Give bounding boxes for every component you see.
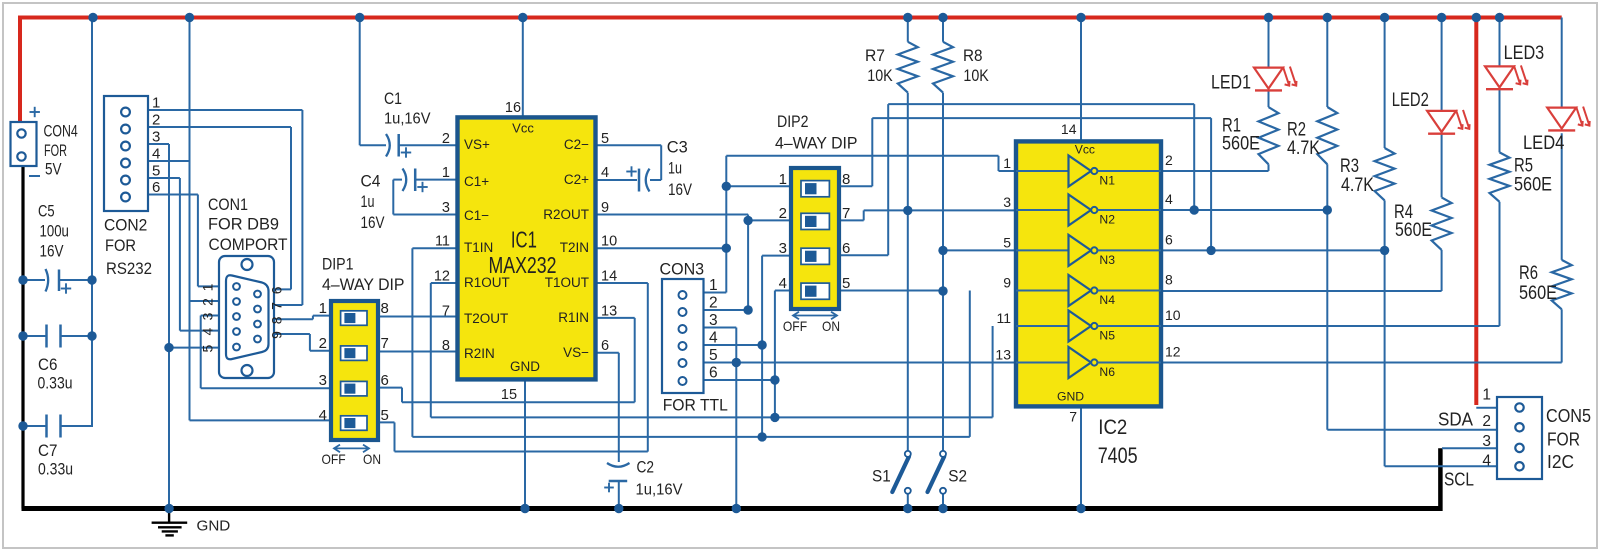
svg-text:COMPORT: COMPORT (209, 235, 288, 254)
svg-text:6: 6 (1165, 231, 1173, 247)
svg-text:5V: 5V (45, 160, 62, 179)
svg-text:GND: GND (1057, 390, 1084, 404)
svg-text:N1: N1 (1099, 173, 1115, 187)
svg-text:C2−: C2− (564, 137, 589, 152)
svg-text:3: 3 (779, 240, 787, 257)
svg-text:4: 4 (152, 146, 160, 163)
svg-text:R7: R7 (865, 46, 885, 65)
svg-text:GND: GND (197, 518, 231, 535)
svg-text:8: 8 (842, 171, 850, 188)
svg-text:1u: 1u (668, 159, 682, 178)
svg-text:FOR: FOR (105, 236, 136, 255)
svg-text:C2: C2 (637, 458, 655, 477)
svg-text:CON4: CON4 (44, 122, 78, 141)
svg-text:16: 16 (505, 100, 521, 116)
svg-text:0.33u: 0.33u (38, 374, 73, 393)
svg-text:2: 2 (200, 298, 216, 306)
svg-text:4.7K: 4.7K (1341, 175, 1374, 196)
svg-text:5: 5 (152, 163, 160, 180)
svg-text:6: 6 (152, 179, 160, 196)
svg-text:14: 14 (1061, 121, 1077, 137)
svg-text:13: 13 (995, 347, 1011, 363)
svg-text:DIP2: DIP2 (777, 112, 809, 131)
svg-text:1: 1 (1482, 387, 1491, 404)
svg-text:9: 9 (1003, 275, 1011, 291)
svg-text:7: 7 (442, 303, 450, 319)
svg-text:3: 3 (152, 129, 160, 146)
svg-text:5: 5 (381, 407, 389, 424)
svg-text:9: 9 (601, 200, 609, 216)
svg-text:GND: GND (510, 359, 540, 374)
svg-text:IC2: IC2 (1098, 415, 1127, 439)
svg-text:CON2: CON2 (104, 216, 147, 235)
svg-text:2: 2 (152, 112, 160, 129)
svg-text:1u,16V: 1u,16V (636, 482, 683, 499)
svg-text:7: 7 (269, 302, 285, 310)
svg-text:LED2: LED2 (1392, 90, 1429, 111)
svg-text:SCL: SCL (1444, 470, 1474, 490)
svg-text:N4: N4 (1099, 293, 1115, 307)
svg-text:1: 1 (779, 171, 787, 188)
svg-text:R5: R5 (1514, 155, 1533, 176)
svg-text:5: 5 (709, 347, 718, 364)
svg-text:N2: N2 (1099, 212, 1115, 226)
svg-text:560E: 560E (1519, 283, 1557, 304)
svg-text:560E: 560E (1395, 220, 1432, 241)
svg-text:FOR TTL: FOR TTL (663, 395, 728, 414)
svg-text:1: 1 (1003, 155, 1011, 171)
svg-text:C1: C1 (384, 89, 402, 108)
svg-text:C6: C6 (38, 355, 57, 374)
svg-text:R6: R6 (1519, 263, 1538, 284)
svg-text:4–WAY DIP: 4–WAY DIP (322, 275, 405, 294)
svg-text:SDA: SDA (1438, 410, 1473, 430)
svg-text:2: 2 (319, 335, 327, 352)
svg-text:FOR DB9: FOR DB9 (208, 215, 279, 234)
svg-text:N3: N3 (1099, 253, 1115, 267)
svg-text:12: 12 (1165, 344, 1181, 360)
svg-text:R1IN: R1IN (558, 310, 589, 325)
svg-text:2: 2 (709, 295, 718, 312)
svg-text:4: 4 (1482, 453, 1491, 470)
svg-text:6: 6 (842, 240, 850, 257)
svg-text:LED4: LED4 (1523, 133, 1565, 154)
svg-text:C5: C5 (38, 202, 55, 221)
svg-text:1: 1 (319, 300, 327, 317)
svg-text:1: 1 (200, 283, 216, 291)
svg-text:7: 7 (381, 335, 389, 352)
svg-text:VS−: VS− (563, 345, 589, 360)
svg-text:8: 8 (442, 338, 450, 354)
svg-text:N6: N6 (1099, 365, 1115, 379)
svg-text:I2C: I2C (1547, 452, 1574, 472)
svg-text:8: 8 (269, 316, 285, 324)
svg-text:5: 5 (200, 344, 216, 352)
svg-text:7: 7 (1069, 409, 1077, 425)
svg-text:OFF: OFF (322, 451, 346, 467)
svg-text:4: 4 (200, 327, 216, 335)
svg-text:3: 3 (1003, 194, 1011, 210)
svg-text:10: 10 (601, 234, 617, 250)
svg-text:3: 3 (1482, 433, 1491, 450)
svg-text:FOR: FOR (44, 141, 67, 160)
svg-text:11: 11 (435, 234, 450, 250)
svg-text:2: 2 (1482, 413, 1491, 430)
svg-text:FOR: FOR (1547, 430, 1580, 450)
svg-text:S1: S1 (872, 466, 891, 485)
svg-text:3: 3 (442, 200, 450, 216)
svg-text:CON3: CON3 (660, 259, 705, 278)
svg-text:11: 11 (996, 310, 1011, 326)
svg-text:T2OUT: T2OUT (464, 311, 508, 326)
svg-text:2: 2 (779, 205, 787, 222)
svg-text:10: 10 (1165, 307, 1181, 323)
svg-text:C1+: C1+ (464, 174, 489, 189)
svg-text:8: 8 (1165, 272, 1173, 288)
svg-text:3: 3 (709, 312, 718, 329)
svg-text:1: 1 (442, 165, 450, 181)
svg-text:1: 1 (709, 277, 718, 294)
svg-text:4: 4 (709, 330, 718, 347)
svg-text:13: 13 (601, 303, 617, 319)
svg-text:7: 7 (842, 205, 850, 222)
svg-text:C4: C4 (361, 172, 381, 191)
svg-text:5: 5 (842, 275, 850, 292)
svg-text:5: 5 (601, 131, 609, 147)
svg-text:1u: 1u (361, 192, 375, 211)
svg-text:N5: N5 (1099, 328, 1115, 342)
svg-text:ON: ON (822, 318, 840, 334)
svg-text:3: 3 (200, 312, 216, 320)
svg-text:CON5: CON5 (1546, 406, 1591, 426)
svg-text:CON1: CON1 (208, 195, 248, 214)
svg-text:4–WAY DIP: 4–WAY DIP (775, 134, 858, 153)
svg-text:LED1: LED1 (1211, 73, 1251, 94)
svg-text:R8: R8 (963, 46, 983, 65)
svg-text:7405: 7405 (1098, 443, 1138, 468)
svg-text:9: 9 (269, 331, 285, 339)
svg-text:1u,16V: 1u,16V (384, 111, 431, 128)
svg-text:T2IN: T2IN (560, 240, 589, 255)
svg-text:12: 12 (434, 269, 450, 285)
svg-text:6: 6 (601, 338, 609, 354)
svg-text:16V: 16V (40, 242, 65, 261)
svg-text:4: 4 (601, 165, 609, 181)
svg-text:560E: 560E (1514, 174, 1552, 195)
svg-text:RS232: RS232 (106, 259, 152, 278)
svg-text:15: 15 (501, 387, 517, 403)
svg-text:1: 1 (152, 95, 160, 112)
svg-text:5: 5 (1003, 234, 1011, 250)
svg-text:C2+: C2+ (564, 172, 589, 187)
svg-text:C7: C7 (38, 441, 57, 460)
svg-text:Vcc: Vcc (1075, 143, 1095, 157)
svg-text:R2OUT: R2OUT (543, 207, 589, 222)
svg-text:IC1: IC1 (511, 227, 537, 253)
svg-text:R3: R3 (1340, 156, 1359, 177)
svg-text:Vcc: Vcc (512, 121, 534, 136)
svg-text:10K: 10K (963, 66, 989, 85)
svg-text:8: 8 (381, 300, 389, 317)
svg-text:6: 6 (269, 286, 285, 294)
svg-text:S2: S2 (948, 466, 967, 485)
svg-text:100u: 100u (40, 222, 69, 241)
svg-text:4: 4 (319, 407, 327, 424)
svg-text:C1−: C1− (464, 208, 489, 223)
svg-text:6: 6 (381, 372, 389, 389)
svg-text:4: 4 (1165, 191, 1173, 207)
svg-text:VS+: VS+ (464, 137, 490, 152)
svg-text:DIP1: DIP1 (322, 255, 354, 274)
svg-text:R2IN: R2IN (464, 346, 495, 361)
svg-text:MAX232: MAX232 (489, 252, 557, 278)
svg-text:2: 2 (442, 131, 450, 147)
svg-text:4: 4 (779, 275, 787, 292)
svg-text:3: 3 (319, 372, 327, 389)
svg-text:10K: 10K (867, 66, 893, 85)
svg-text:2: 2 (1165, 152, 1173, 168)
svg-text:C3: C3 (667, 137, 688, 156)
svg-text:ON: ON (363, 451, 381, 467)
svg-text:0.33u: 0.33u (38, 460, 73, 479)
svg-text:560E: 560E (1222, 134, 1260, 155)
svg-text:6: 6 (709, 365, 718, 382)
svg-text:LED3: LED3 (1504, 43, 1545, 64)
svg-text:OFF: OFF (783, 318, 807, 334)
svg-text:14: 14 (601, 269, 617, 285)
svg-text:16V: 16V (361, 213, 386, 232)
svg-text:4.7K: 4.7K (1287, 138, 1320, 159)
svg-text:16V: 16V (668, 180, 693, 199)
